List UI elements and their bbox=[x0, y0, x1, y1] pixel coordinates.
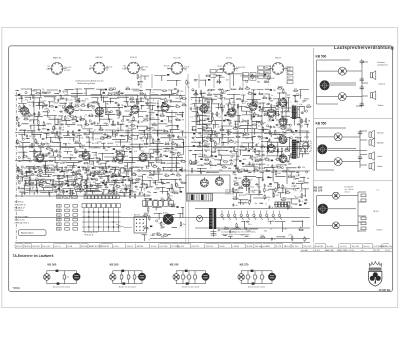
svg-text:8n: 8n bbox=[165, 174, 167, 176]
svg-text:70 0,1: 70 0,1 bbox=[385, 250, 390, 252]
svg-text:47k: 47k bbox=[300, 121, 303, 123]
svg-text:Tiefton: Tiefton bbox=[377, 165, 382, 168]
svg-text:1M: 1M bbox=[182, 103, 185, 105]
svg-text:EM84 15k: EM84 15k bbox=[383, 246, 393, 248]
svg-text:FM: FM bbox=[137, 84, 140, 86]
tube element T5 bbox=[161, 102, 169, 112]
svg-text:47k: 47k bbox=[283, 104, 286, 106]
connector KB 500 left bbox=[44, 274, 51, 281]
svg-text:100k: 100k bbox=[33, 160, 37, 162]
svg-text:k: k bbox=[179, 136, 180, 138]
svg-text:EABC: EABC bbox=[298, 180, 304, 183]
speaker LS5 (rear view) bbox=[317, 144, 327, 154]
speaker LS4 bbox=[334, 133, 342, 141]
svg-text:8n: 8n bbox=[258, 125, 260, 127]
svg-text:EM84: EM84 bbox=[219, 77, 225, 79]
svg-text:EABC: EABC bbox=[57, 196, 62, 199]
svg-text:FM: FM bbox=[25, 178, 28, 180]
table: component location index strip bbox=[15, 247, 392, 249]
svg-text:22n: 22n bbox=[274, 170, 277, 172]
svg-text:a UKW: a UKW bbox=[232, 246, 239, 248]
speaker icon KB500 bottom bbox=[370, 91, 375, 100]
svg-text:1n: 1n bbox=[230, 120, 232, 122]
svg-text:EM84: EM84 bbox=[32, 91, 38, 93]
svg-text:T0562: T0562 bbox=[13, 286, 21, 290]
svg-text:U TA: U TA bbox=[67, 245, 72, 248]
RC branch at x=195 bbox=[194, 271, 197, 284]
motor wiring KB245/370 bbox=[317, 192, 367, 232]
svg-text:UKW g: UKW g bbox=[377, 230, 383, 232]
svg-text:100k: 100k bbox=[150, 117, 154, 119]
svg-text:5k: 5k bbox=[62, 97, 64, 99]
svg-text:5k: 5k bbox=[214, 143, 216, 145]
svg-text:100k: 100k bbox=[268, 186, 272, 188]
svg-text:22n: 22n bbox=[96, 174, 99, 176]
svg-text:100k: 100k bbox=[136, 277, 140, 279]
svg-text:8n: 8n bbox=[230, 114, 232, 116]
svg-text:k: k bbox=[178, 185, 179, 187]
svg-text:1n: 1n bbox=[33, 145, 35, 147]
svg-text:2M: 2M bbox=[217, 164, 220, 166]
svg-text:M 100k: M 100k bbox=[81, 246, 89, 248]
svg-text:22n: 22n bbox=[72, 193, 75, 195]
svg-text:70 6,8: 70 6,8 bbox=[151, 246, 158, 248]
connector KB 550 left bbox=[110, 274, 117, 281]
svg-text:5k: 5k bbox=[21, 129, 23, 131]
svg-text:47k: 47k bbox=[84, 93, 87, 95]
svg-text:UKW: UKW bbox=[245, 194, 250, 196]
svg-text:ECC85: ECC85 bbox=[239, 195, 246, 197]
svg-text:EM84: EM84 bbox=[141, 70, 146, 72]
tube socket view V2 EBF 89 bbox=[90, 62, 109, 74]
svg-text:100k: 100k bbox=[37, 114, 41, 116]
svg-text:12 ECC85 5k: 12 ECC85 5k bbox=[15, 204, 26, 206]
svg-text:15k: 15k bbox=[228, 103, 231, 105]
svg-text:Abgleichplan: Abgleichplan bbox=[21, 232, 34, 235]
svg-text:47k: 47k bbox=[194, 81, 197, 83]
rectifier stack bbox=[211, 230, 217, 238]
svg-text:22n: 22n bbox=[273, 147, 276, 149]
svg-text:AM: AM bbox=[21, 107, 24, 110]
tube element T7 bbox=[228, 106, 236, 116]
svg-text:ECC85: ECC85 bbox=[64, 70, 70, 72]
svg-text:10n 2M: 10n 2M bbox=[352, 246, 359, 248]
switch: push-button bank bbox=[84, 194, 120, 199]
capacitor: electrolytic can C-el bbox=[163, 214, 174, 225]
speaker LS2 (woofer, rear view) bbox=[320, 80, 330, 90]
svg-text:8n: 8n bbox=[39, 190, 41, 192]
svg-text:FM: FM bbox=[303, 196, 306, 198]
svg-text:10n: 10n bbox=[265, 77, 268, 79]
svg-text:10n: 10n bbox=[38, 179, 41, 181]
svg-text:EABC: EABC bbox=[221, 92, 227, 95]
svg-text:ECC85: ECC85 bbox=[62, 175, 69, 177]
svg-text:15k 0,1: 15k 0,1 bbox=[127, 246, 135, 248]
tube element T16 bbox=[82, 150, 90, 160]
svg-text:47k: 47k bbox=[218, 154, 221, 156]
svg-text:UKW: UKW bbox=[155, 189, 160, 191]
capacitor C-kb500-3 bbox=[360, 85, 364, 91]
svg-text:AM: AM bbox=[238, 177, 241, 180]
connector J2 (rear) bbox=[318, 204, 328, 214]
svg-text:1M: 1M bbox=[128, 122, 131, 124]
svg-text:FM AM 0,47: FM AM 0,47 bbox=[15, 206, 25, 209]
svg-text:100k: 100k bbox=[64, 95, 68, 97]
svg-text:EM84: EM84 bbox=[133, 90, 139, 92]
svg-text:EL84 TA: EL84 TA bbox=[315, 245, 324, 248]
svg-text:FM: FM bbox=[223, 97, 226, 99]
svg-text:ECC85: ECC85 bbox=[269, 127, 276, 129]
svg-text:8n: 8n bbox=[117, 98, 119, 100]
svg-text:UKW: UKW bbox=[156, 173, 161, 175]
connector J3 bbox=[332, 222, 339, 229]
switch: record/tape switch contacts bbox=[221, 211, 282, 221]
svg-text:15k: 15k bbox=[44, 108, 47, 110]
svg-text:ECH 81: ECH 81 bbox=[130, 57, 138, 59]
svg-text:AM: AM bbox=[161, 235, 164, 238]
tube socket view V4 ECC 85 bbox=[168, 62, 187, 74]
svg-text:ECC85: ECC85 bbox=[120, 195, 127, 197]
svg-text:TA-Entzerrer im Laufwerk: TA-Entzerrer im Laufwerk bbox=[13, 254, 54, 258]
svg-text:AM: AM bbox=[101, 169, 104, 172]
svg-text:10n: 10n bbox=[126, 130, 129, 132]
svg-text:1M: 1M bbox=[55, 183, 58, 185]
tube element T12 bbox=[267, 143, 275, 153]
svg-text:2x: 2x bbox=[91, 179, 93, 181]
svg-text:5k: 5k bbox=[62, 108, 64, 110]
svg-text:2M: 2M bbox=[91, 138, 94, 140]
svg-text:10n: 10n bbox=[170, 192, 173, 194]
svg-text:a b: a b bbox=[361, 250, 364, 252]
svg-text:4,7k: 4,7k bbox=[85, 98, 89, 100]
svg-text:4,7k: 4,7k bbox=[95, 139, 99, 141]
svg-text:2M: 2M bbox=[32, 187, 35, 189]
connector KB 550 right bbox=[138, 273, 146, 281]
svg-text:1M: 1M bbox=[148, 162, 151, 164]
svg-text:lautsprecher: lautsprecher bbox=[378, 63, 389, 66]
svg-text:Tiefton-: Tiefton- bbox=[378, 104, 385, 107]
svg-text:4,7k: 4,7k bbox=[282, 136, 286, 138]
svg-text:10n AM: 10n AM bbox=[301, 249, 308, 252]
transformer: output transformer core 1 bbox=[292, 106, 299, 119]
speaker icon KB550 c bbox=[369, 152, 374, 161]
tube element T21 bbox=[242, 177, 250, 187]
svg-text:4,7k U: 4,7k U bbox=[54, 246, 61, 248]
svg-text:FM: FM bbox=[232, 229, 235, 231]
svg-text:EABC: EABC bbox=[114, 91, 120, 94]
svg-text:2M: 2M bbox=[149, 178, 152, 180]
svg-text:2M: 2M bbox=[164, 234, 167, 236]
logo: Graetz crest with clover bbox=[369, 261, 382, 286]
capacitor C-kb500-1 bbox=[360, 59, 364, 65]
tube socket view V6 EM 84 bbox=[269, 63, 288, 75]
box: TA/TB preamp enclosure bbox=[186, 175, 230, 193]
svg-text:EABC: EABC bbox=[47, 123, 53, 126]
svg-text:KB 500: KB 500 bbox=[316, 55, 327, 59]
svg-text:1n: 1n bbox=[271, 95, 273, 97]
svg-text:8n: 8n bbox=[294, 96, 296, 98]
svg-text:8n: 8n bbox=[288, 73, 290, 75]
svg-text:15k: 15k bbox=[236, 198, 239, 200]
svg-text:2x: 2x bbox=[202, 134, 204, 136]
svg-text:AM: AM bbox=[273, 105, 276, 108]
svg-text:FM: FM bbox=[155, 185, 158, 187]
svg-text:47k: 47k bbox=[220, 95, 223, 97]
capacitor C-kb500-2 bbox=[360, 77, 364, 83]
connector KB 370 right bbox=[268, 273, 276, 281]
transformer: IF can 1 bbox=[203, 98, 212, 124]
svg-text:EM84: EM84 bbox=[283, 119, 289, 121]
svg-text:EM84: EM84 bbox=[231, 105, 237, 107]
svg-text:AM: AM bbox=[277, 107, 280, 110]
svg-text:8n: 8n bbox=[175, 166, 177, 168]
RC branch at x=128.5 bbox=[127, 271, 130, 284]
svg-text:k: k bbox=[194, 140, 195, 142]
svg-text:15k: 15k bbox=[297, 139, 300, 141]
svg-text:2M: 2M bbox=[17, 180, 20, 182]
svg-text:47k: 47k bbox=[99, 128, 102, 130]
svg-text:EM84: EM84 bbox=[265, 72, 269, 74]
svg-text:2M: 2M bbox=[261, 145, 264, 147]
svg-text:5k: 5k bbox=[250, 149, 252, 151]
svg-text:1M: 1M bbox=[161, 130, 164, 132]
svg-text:2x: 2x bbox=[55, 128, 57, 130]
tube element T13 bbox=[279, 134, 287, 144]
speaker icon KB550 a bbox=[369, 130, 374, 139]
svg-text:1M: 1M bbox=[141, 122, 144, 124]
svg-text:a EM84: a EM84 bbox=[263, 246, 271, 248]
svg-text:g: g bbox=[258, 77, 259, 79]
svg-text:0,47: 0,47 bbox=[288, 69, 291, 71]
speaker wiring KB 500 bbox=[317, 60, 369, 106]
svg-text:4,7k 0,47: 4,7k 0,47 bbox=[141, 67, 148, 69]
tube element T4 bbox=[131, 104, 139, 114]
svg-text:0,25 TB: 0,25 TB bbox=[192, 246, 200, 248]
svg-text:AM: AM bbox=[257, 81, 260, 84]
svg-text:25u: 25u bbox=[39, 101, 42, 103]
svg-text:15k 22n: 15k 22n bbox=[206, 246, 214, 248]
svg-text:KB 370: KB 370 bbox=[314, 189, 323, 193]
svg-text:25u: 25u bbox=[266, 190, 269, 192]
svg-text:1n: 1n bbox=[53, 110, 55, 112]
svg-text:25u: 25u bbox=[182, 224, 185, 226]
svg-text:2x: 2x bbox=[250, 277, 252, 279]
wire/component cluster: power supply right part bbox=[233, 167, 309, 205]
svg-text:15k: 15k bbox=[289, 207, 292, 209]
svg-text:10n: 10n bbox=[57, 175, 60, 177]
svg-text:10n: 10n bbox=[288, 175, 291, 177]
svg-text:0,1 M: 0,1 M bbox=[276, 246, 281, 248]
svg-text:15k: 15k bbox=[74, 187, 77, 189]
svg-text:g: g bbox=[298, 174, 299, 176]
wire: pointer arc from grid to lamp panel bbox=[116, 224, 132, 228]
svg-text:22n: 22n bbox=[249, 180, 252, 182]
svg-text:AM: AM bbox=[108, 146, 111, 149]
svg-text:5k: 5k bbox=[20, 169, 22, 171]
svg-text:4,7k: 4,7k bbox=[254, 156, 258, 158]
svg-text:10n: 10n bbox=[50, 141, 53, 143]
tube element T8 bbox=[249, 101, 257, 111]
svg-text:1M: 1M bbox=[261, 159, 264, 161]
svg-text:EABC: EABC bbox=[136, 177, 142, 180]
svg-text:statisch: statisch bbox=[379, 82, 385, 85]
svg-text:ECC85: ECC85 bbox=[77, 151, 84, 153]
svg-text:1M: 1M bbox=[273, 90, 276, 92]
svg-text:1M: 1M bbox=[67, 116, 70, 118]
svg-text:KB 550: KB 550 bbox=[316, 121, 327, 125]
svg-text:2x: 2x bbox=[234, 143, 236, 145]
tube element T3 bbox=[95, 105, 103, 115]
svg-text:22n: 22n bbox=[300, 191, 303, 193]
svg-text:5k: 5k bbox=[116, 184, 118, 186]
svg-text:4,7k: 4,7k bbox=[234, 183, 238, 185]
svg-text:AM: AM bbox=[237, 155, 240, 158]
svg-text:25u: 25u bbox=[276, 158, 279, 160]
svg-text:EM84: EM84 bbox=[79, 154, 85, 156]
svg-text:k k: k k bbox=[377, 190, 379, 192]
switch: push-button bank row B bbox=[143, 201, 174, 207]
svg-text:25u 1n 30p 5k 0,25: 25u 1n 30p 5k 0,25 bbox=[84, 232, 98, 234]
svg-text:2x: 2x bbox=[129, 178, 131, 180]
svg-text:100k: 100k bbox=[267, 121, 271, 123]
svg-text:22n 2M 1n: 22n 2M 1n bbox=[15, 210, 24, 212]
svg-text:Skalenseite gesehen: Skalenseite gesehen bbox=[78, 82, 96, 85]
svg-text:15k 30p: 15k 30p bbox=[255, 246, 263, 248]
svg-text:g: g bbox=[153, 99, 154, 101]
svg-text:10n: 10n bbox=[138, 133, 141, 135]
svg-text:ECC85: ECC85 bbox=[156, 160, 163, 162]
svg-text:47k: 47k bbox=[232, 102, 235, 104]
svg-text:10n: 10n bbox=[89, 69, 92, 71]
svg-text:TA 0,47: TA 0,47 bbox=[284, 245, 292, 248]
svg-text:g: g bbox=[63, 127, 64, 129]
svg-text:6,8 8n: 6,8 8n bbox=[349, 250, 354, 252]
tube element T18 bbox=[139, 152, 147, 162]
svg-text:EABC: EABC bbox=[165, 147, 171, 150]
svg-text:2x: 2x bbox=[174, 170, 176, 172]
RC branch at x=262 bbox=[261, 271, 264, 284]
svg-text:k: k bbox=[48, 109, 49, 111]
svg-text:100k: 100k bbox=[147, 195, 151, 197]
svg-text:47k: 47k bbox=[68, 167, 71, 169]
svg-text:2M EL84: 2M EL84 bbox=[101, 246, 110, 248]
svg-text:5k: 5k bbox=[19, 145, 21, 147]
note: Abgleich box bbox=[19, 230, 47, 236]
svg-text:AM: AM bbox=[104, 122, 107, 125]
svg-text:ECC85: ECC85 bbox=[72, 197, 78, 199]
svg-text:UKW: UKW bbox=[89, 103, 94, 105]
svg-text:100k: 100k bbox=[94, 171, 98, 173]
svg-text:k: k bbox=[147, 133, 148, 135]
svg-text:6,8 ECC85: 6,8 ECC85 bbox=[236, 67, 245, 69]
svg-text:2x: 2x bbox=[94, 129, 96, 131]
svg-text:TA 350: TA 350 bbox=[373, 210, 379, 213]
connector KB 370 left bbox=[238, 274, 245, 281]
svg-text:1M: 1M bbox=[141, 106, 144, 108]
svg-text:10n 0,47: 10n 0,47 bbox=[42, 246, 51, 248]
svg-text:AM: AM bbox=[72, 121, 75, 124]
svg-text:1n 4,7k: 1n 4,7k bbox=[340, 246, 348, 248]
transformer: mains transformer core bbox=[209, 208, 216, 229]
svg-text:15k: 15k bbox=[126, 87, 129, 89]
svg-text:5k: 5k bbox=[90, 66, 92, 68]
svg-text:k: k bbox=[153, 92, 154, 94]
connector KB 245 left bbox=[173, 274, 180, 281]
svg-text:2M: 2M bbox=[110, 169, 113, 171]
svg-text:2x: 2x bbox=[145, 147, 147, 149]
speaker icon KB550 b bbox=[369, 138, 374, 147]
svg-text:TA 0,47: TA 0,47 bbox=[106, 66, 112, 69]
svg-text:FM: FM bbox=[266, 151, 269, 153]
svg-text:5k: 5k bbox=[233, 155, 235, 157]
svg-text:EM84: EM84 bbox=[304, 99, 310, 101]
tube socket view V1 EABC 80 bbox=[48, 63, 67, 75]
svg-text:ECC85: ECC85 bbox=[164, 66, 170, 68]
svg-text:5k 25u: 5k 25u bbox=[292, 246, 299, 248]
svg-text:1M: 1M bbox=[254, 77, 257, 79]
svg-text:EABC 80: EABC 80 bbox=[53, 57, 62, 60]
svg-text:8n: 8n bbox=[88, 116, 90, 118]
svg-text:UKW: UKW bbox=[54, 103, 59, 105]
RC branch at x=189 bbox=[188, 271, 191, 284]
wire/component cluster: AF-output section bbox=[188, 89, 290, 166]
svg-text:100k: 100k bbox=[253, 114, 257, 116]
svg-text:100k: 100k bbox=[65, 197, 69, 199]
wire/component cluster: output right edge bbox=[290, 90, 309, 158]
svg-text:8n 8n K 25u: 8n 8n K 25u bbox=[15, 219, 25, 221]
svg-text:Lautsprecherverdrähtung: Lautsprecherverdrähtung bbox=[334, 45, 394, 50]
svg-text:EL84: EL84 bbox=[217, 66, 221, 68]
svg-text:seitlich: seitlich bbox=[377, 155, 383, 158]
svg-text:5k FM: 5k FM bbox=[247, 246, 253, 248]
svg-text:g: g bbox=[207, 109, 208, 111]
svg-text:100k: 100k bbox=[246, 231, 250, 233]
svg-text:FM: FM bbox=[78, 174, 81, 176]
svg-text:ohne C: ohne C bbox=[345, 191, 351, 193]
svg-text:2x: 2x bbox=[139, 77, 141, 79]
svg-text:g: g bbox=[191, 277, 192, 279]
svg-text:10n: 10n bbox=[176, 162, 179, 164]
svg-text:EM84: EM84 bbox=[58, 185, 64, 187]
speaker wiring KB 550 bbox=[317, 128, 368, 170]
svg-text:8n: 8n bbox=[300, 227, 302, 229]
RC branch at x=121.5 bbox=[120, 271, 123, 284]
wire/component cluster: lower middle section bbox=[142, 199, 184, 241]
svg-text:2x: 2x bbox=[147, 168, 149, 170]
wire: long vertical feeders bbox=[34, 92, 286, 195]
svg-text:2M: 2M bbox=[52, 176, 55, 178]
speaker icon KB500 top bbox=[370, 71, 375, 80]
svg-text:Mittelton: Mittelton bbox=[377, 141, 384, 144]
svg-text:100k: 100k bbox=[142, 136, 146, 138]
svg-text:2x: 2x bbox=[268, 161, 270, 163]
svg-text:UKW: UKW bbox=[176, 153, 181, 155]
svg-text:100k: 100k bbox=[204, 98, 208, 100]
svg-text:1M: 1M bbox=[61, 129, 64, 131]
svg-text:2M: 2M bbox=[161, 198, 164, 200]
svg-text:1M: 1M bbox=[263, 96, 266, 98]
label boxes above symbol table bbox=[57, 195, 78, 199]
svg-text:2M: 2M bbox=[29, 121, 32, 123]
svg-text:4,7k: 4,7k bbox=[78, 109, 82, 111]
svg-text:AM 15k: AM 15k bbox=[134, 214, 140, 217]
svg-text:10n: 10n bbox=[153, 164, 156, 166]
svg-text:ECC85: ECC85 bbox=[135, 171, 142, 173]
svg-text:22n: 22n bbox=[76, 99, 79, 101]
svg-text:8n: 8n bbox=[176, 118, 178, 120]
svg-text:100k: 100k bbox=[97, 142, 101, 144]
svg-text:25u: 25u bbox=[299, 95, 302, 97]
